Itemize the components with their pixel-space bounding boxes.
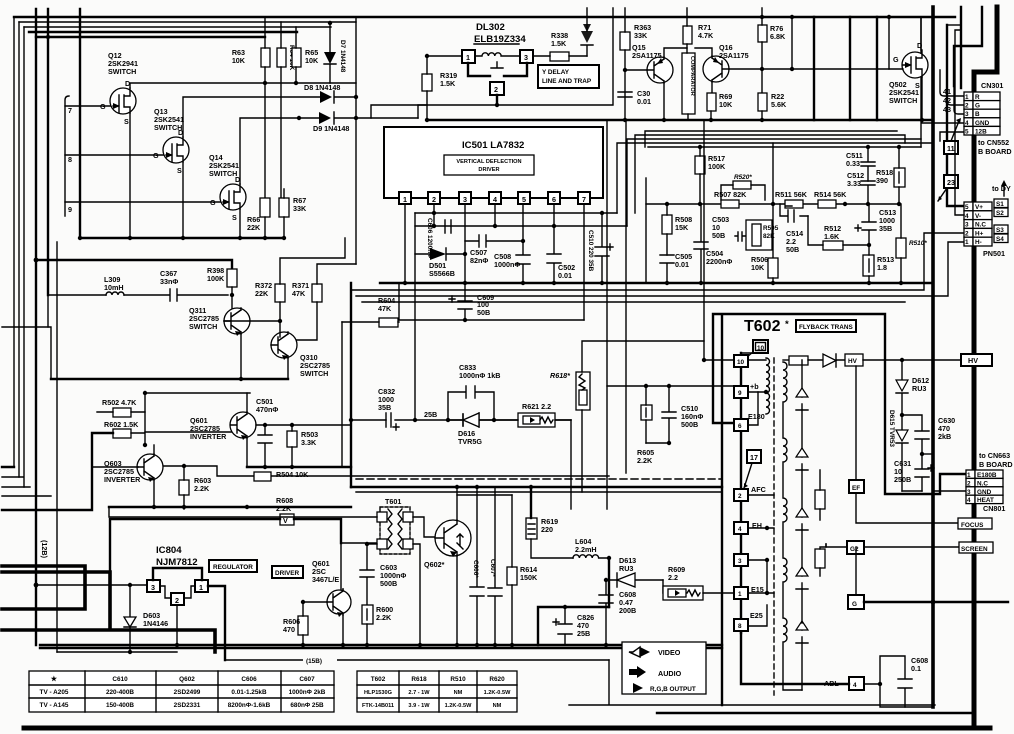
node junction 773,283: [771, 281, 775, 285]
node junction 240,238: [238, 236, 242, 240]
node junction 899,147: [897, 145, 901, 149]
wire G2 left tap: [826, 544, 847, 547]
svg-text:1N4146: 1N4146: [143, 619, 168, 628]
node junction 185,507: [182, 505, 186, 509]
wire bottom right y705: [569, 660, 935, 705]
svg-text:R514 56K: R514 56K: [814, 190, 847, 199]
svg-text:E180: E180: [748, 412, 765, 421]
svg-text:22K: 22K: [247, 223, 261, 232]
capacitor C608 0.1: [880, 656, 912, 707]
wire top border line 2: [19, 21, 356, 23]
svg-text:RU3: RU3: [912, 384, 926, 393]
wire pin9 +b junction: [748, 391, 766, 393]
wire thick vertical x351: [350, 283, 352, 487]
winding flyback primary: [766, 358, 770, 414]
wire R22 bottom: [761, 111, 763, 120]
svg-text:2SD2499: 2SD2499: [174, 689, 201, 696]
wire left border vertical 1: [13, 17, 15, 467]
svg-text:3.33: 3.33: [847, 179, 861, 188]
wire pin2 down: [433, 204, 435, 226]
node junction 183,238: [181, 236, 185, 240]
svg-text:H-: H-: [975, 239, 982, 246]
svg-text:22K: 22K: [255, 289, 269, 298]
wire G up loop: [855, 547, 857, 595]
wire nested wrap line 2: [627, 139, 921, 226]
wire Q502 source: [921, 77, 923, 120]
wire Q603 emitter: [153, 480, 155, 507]
wire thin line y474: [271, 476, 722, 492]
node junction 669,443: [667, 441, 671, 445]
wire top border line 1: [14, 16, 955, 18]
svg-text:VERTICAL DEFLECTION: VERTICAL DEFLECTION: [456, 159, 521, 165]
node HV big box: [961, 354, 992, 366]
wire Q15 collector top: [664, 48, 687, 57]
svg-text:50B: 50B: [712, 231, 725, 240]
svg-text:2kB: 2kB: [938, 432, 951, 441]
resistor R71 4.7K: [683, 26, 692, 44]
node junction 869,283: [867, 281, 871, 285]
diode D9 1N4148: [240, 112, 418, 184]
wire pin3 down to bus: [464, 204, 466, 283]
wire Q311 emitter down: [240, 334, 242, 379]
pin 2 IC804: [171, 593, 184, 605]
wire Q601 base left: [303, 601, 327, 603]
node junction 185,470: [182, 464, 186, 468]
node junction 247,507?: [245, 505, 249, 509]
wire mid horizontal y290 to PN501 H+: [351, 233, 964, 290]
node box 11: [944, 141, 958, 154]
svg-text:250B: 250B: [894, 475, 911, 484]
svg-text:V+: V+: [975, 204, 983, 211]
diode flyback rect 5: [796, 623, 808, 643]
wire Q15 base: [625, 69, 647, 71]
svg-text:220: 220: [541, 525, 553, 534]
svg-text:CN801: CN801: [983, 504, 1005, 513]
wire R513 leads: [868, 245, 870, 283]
svg-text:3.3K: 3.3K: [301, 438, 317, 447]
svg-text:R510*: R510*: [909, 240, 927, 247]
wire base line y432 to Q601 inverter: [145, 431, 231, 433]
wire Q310 emitter down: [287, 358, 289, 379]
svg-text:to CN663: to CN663: [979, 451, 1010, 460]
svg-text:FTK-14B011: FTK-14B011: [362, 703, 394, 709]
svg-text:D9 1N4148: D9 1N4148: [313, 124, 349, 133]
svg-text:B: B: [975, 111, 980, 118]
wire Q603 base: [92, 466, 138, 468]
svg-text:500B: 500B: [681, 420, 698, 429]
svg-text:220-400B: 220-400B: [106, 689, 134, 696]
wire C832 row y420: [351, 419, 571, 421]
svg-text:★: ★: [50, 674, 58, 683]
node junction 664,120: [662, 118, 666, 122]
svg-text:8: 8: [738, 623, 742, 630]
svg-text:5: 5: [965, 128, 969, 135]
wire R619 leads: [530, 487, 532, 518]
wire Q603 collector up: [153, 445, 155, 454]
node junction 465,254: [463, 252, 467, 256]
node junction 497,105: [495, 103, 499, 107]
pin 6 flyback: [734, 419, 748, 431]
node junction 606,645: [604, 643, 608, 647]
svg-text:T601: T601: [385, 497, 401, 506]
svg-text:1: 1: [403, 195, 407, 204]
node junction 367,544: [365, 542, 369, 546]
node junction 427,120: [425, 118, 429, 122]
wire box 23 pointer: [938, 188, 947, 201]
node junction 889,17: [887, 15, 891, 19]
svg-text:3467L/E: 3467L/E: [312, 575, 339, 584]
svg-text:+b: +b: [750, 382, 759, 391]
svg-text:2.2mH: 2.2mH: [575, 545, 597, 554]
svg-text:1.8: 1.8: [877, 263, 887, 272]
wire pin10 feed: [704, 359, 734, 361]
transistor Q14 2SK2541 SWITCH: [209, 153, 246, 222]
svg-text:9: 9: [68, 205, 72, 214]
svg-text:10K: 10K: [232, 56, 246, 65]
pin 10 flyback: [734, 355, 748, 367]
svg-text:3: 3: [967, 489, 971, 496]
svg-text:1000nΦ 2kB: 1000nΦ 2kB: [289, 689, 326, 696]
svg-text:2SA1175: 2SA1175: [632, 51, 662, 60]
comparator box: [682, 53, 695, 114]
svg-text:41: 41: [943, 87, 951, 96]
svg-text:SWITCH: SWITCH: [300, 369, 328, 378]
wire 15B line y660: [225, 659, 609, 661]
label box FLYBACK TRANS: [796, 320, 856, 332]
wire collector right y425: [256, 424, 351, 426]
svg-text:C610: C610: [112, 676, 128, 683]
svg-text:SWITCH: SWITCH: [154, 123, 182, 132]
wire left border vertical 2: [18, 22, 20, 477]
wire R502 leads: [97, 393, 145, 412]
pin 1 IC804: [195, 580, 208, 592]
node box 10 pointer: [753, 340, 768, 353]
node junction 762,69: [760, 67, 764, 71]
svg-text:2: 2: [738, 493, 742, 500]
svg-text:1000nΦ: 1000nΦ: [494, 260, 520, 269]
capacitor C367 33n: [124, 289, 228, 301]
resistor R520*: [733, 181, 751, 189]
svg-text:3: 3: [965, 222, 969, 229]
wire CN301 G feed: [849, 17, 851, 120]
svg-text:10K: 10K: [719, 100, 733, 109]
wire x399 link: [398, 283, 400, 320]
wire R510 leads: [900, 204, 902, 283]
wire y83 Q12 drain line: [130, 83, 356, 88]
svg-text:EF: EF: [852, 485, 860, 492]
wire y213 line: [415, 212, 617, 214]
capacitor C511 0.33: [861, 147, 875, 181]
transistor Q16 2SA1175: [703, 43, 749, 82]
node junction 554,226: [552, 224, 556, 228]
wire G to right thick: [864, 601, 1008, 603]
svg-text:10K: 10K: [305, 56, 319, 65]
node junction 523,241: [521, 239, 525, 243]
svg-text:2SD2331: 2SD2331: [174, 702, 201, 709]
wire comparator bottom: [687, 114, 689, 120]
resistor R67 33K: [279, 198, 289, 217]
resistor R505 82K in box: [746, 220, 772, 250]
pin 6 IC501: [548, 192, 560, 204]
wire y652: [57, 651, 177, 653]
fusible resistor R621 2.2: [518, 413, 555, 427]
wire source bus y238: [80, 237, 284, 239]
transistor Q310 2SC2785 SWITCH: [271, 332, 330, 378]
node junction 512,645: [510, 643, 514, 647]
diode D7 1N4148: [324, 23, 336, 83]
node junction 899,204: [897, 202, 901, 206]
node junction 405,283: [403, 281, 407, 285]
resistor R606 470: [298, 616, 308, 635]
node 15B label: [303, 654, 337, 665]
resistor R504 10K: [254, 472, 271, 481]
node junction 303,645: [301, 643, 305, 647]
wire pin1 E15 stub: [748, 592, 774, 594]
capacitor C609 100 50B: [449, 283, 472, 320]
wire CN301 G feed jog: [947, 78, 964, 105]
wire right thick bus x933: [931, 7, 935, 707]
node S3 box: [994, 225, 1008, 234]
capacitor C505 0.01: [660, 255, 674, 283]
node junction 145,445: [143, 443, 147, 447]
svg-text:Y DELAY: Y DELAY: [542, 69, 570, 76]
legend box: [622, 642, 706, 694]
node junction 265,425: [263, 423, 267, 427]
wire regulator input y585: [36, 584, 147, 586]
wire left bottom thick stub y572: [2, 572, 215, 652]
svg-text:0.01: 0.01: [675, 260, 689, 269]
wire R65 leads: [295, 27, 297, 83]
svg-text:200B: 200B: [619, 606, 636, 615]
pin 4 flyback EH: [734, 522, 748, 534]
svg-text:R510: R510: [450, 676, 466, 683]
svg-text:G: G: [975, 103, 980, 110]
node junction 701,283: [699, 281, 703, 285]
svg-text:1.2K-0.5W: 1.2K-0.5W: [445, 703, 472, 709]
svg-text:VIDEO: VIDEO: [658, 648, 681, 657]
svg-text:2: 2: [175, 596, 179, 605]
node junction 448,420: [446, 418, 450, 422]
svg-text:TV - A145: TV - A145: [40, 702, 69, 709]
wire bottom right y714: [657, 712, 974, 714]
svg-text:50B: 50B: [477, 308, 490, 317]
capacitor C503 10 50B: [735, 232, 746, 241]
svg-text:B BOARD: B BOARD: [978, 147, 1012, 156]
svg-text:3: 3: [463, 195, 467, 204]
svg-text:FOCUS: FOCUS: [961, 522, 984, 529]
wire EF down to FOCUS: [856, 493, 958, 523]
pin 3 IC501: [459, 192, 471, 204]
node junction 700,147: [698, 145, 702, 149]
wire D613 to R609 jog: [662, 580, 664, 593]
transistor Q601 2SC3467L/E driver: [312, 559, 351, 617]
node HV small box: [845, 354, 863, 366]
wire right thick bus x974: [974, 7, 997, 725]
node junction 922,120: [920, 118, 924, 122]
node junction 625,120: [623, 118, 627, 122]
diode D613 RU3: [609, 573, 663, 587]
capacitor C512 3.33: [861, 181, 875, 204]
svg-text:DRIVER: DRIVER: [478, 167, 499, 173]
transformer T602 flyback enclosure: [713, 314, 966, 705]
wire nested wrap line 1: [617, 143, 933, 213]
svg-text:150-400B: 150-400B: [106, 702, 134, 709]
svg-text:R: R: [975, 94, 980, 101]
wire flyback diode chain vertical: [801, 360, 803, 690]
svg-text:DL302: DL302: [476, 22, 505, 33]
wire y470 line R504: [162, 466, 254, 476]
svg-text:8200nΦ-1.6kB: 8200nΦ-1.6kB: [228, 702, 271, 709]
svg-text:G: G: [100, 102, 106, 111]
svg-text:1.5K: 1.5K: [551, 39, 567, 48]
node junction 901,283: [899, 281, 903, 285]
wire R600 bottom: [366, 624, 368, 645]
wire left border vertical 5: [56, 242, 58, 652]
connector PN501: [964, 202, 1005, 258]
node junction 299,118: [297, 116, 301, 120]
svg-text:SWITCH: SWITCH: [889, 96, 917, 105]
svg-text:2.2K: 2.2K: [276, 504, 292, 513]
wire R363 leads: [624, 8, 626, 120]
transistor Q601 2SC2785 INVERTER: [190, 412, 256, 441]
transistor Q502 2SK2541 SWITCH: [889, 41, 928, 105]
svg-text:SWITCH: SWITCH: [189, 322, 217, 331]
wire Q16 bus y56 vertical x947 top bend: [947, 24, 961, 26]
wire x792 link to top: [791, 17, 793, 69]
svg-text:G2: G2: [850, 546, 859, 553]
capacitor C606 1200n: [445, 220, 451, 233]
svg-text:500B: 500B: [380, 579, 397, 588]
svg-text:11: 11: [947, 144, 955, 153]
svg-text:R621 2.2: R621 2.2: [522, 402, 551, 411]
capacitor C606*: [470, 487, 484, 645]
wire y118 step to R319: [418, 105, 427, 118]
node junction 130,652: [128, 650, 132, 654]
wire CN301 R feed jog: [940, 70, 964, 96]
transistor Q12 2SK2941 SWITCH: [100, 51, 138, 126]
wire V box leads: [110, 519, 341, 572]
delay line DL302 pin 1: [462, 50, 475, 63]
node junction 292,470: [290, 465, 294, 469]
wire R604 leads: [342, 321, 399, 323]
svg-text:5: 5: [965, 204, 969, 211]
diode D616 TVR5G: [448, 413, 494, 427]
svg-text:3.9 - 1W: 3.9 - 1W: [408, 703, 430, 709]
resistor R602 1.5K: [113, 429, 131, 438]
svg-text:82nΦ: 82nΦ: [470, 256, 488, 265]
capacitor C510 160n 500B: [662, 386, 676, 443]
wire EF drop: [855, 366, 857, 480]
svg-text:10: 10: [757, 345, 765, 352]
node junction 292,425: [290, 423, 294, 427]
node junction 367,645: [365, 643, 369, 647]
capacitor C607: [488, 487, 502, 645]
svg-text:R602 1.5K: R602 1.5K: [104, 420, 139, 429]
wire pin3 stub: [748, 560, 767, 593]
svg-text:9: 9: [738, 390, 742, 397]
node junction 145,393: [143, 391, 147, 395]
node junction 465,283: [463, 281, 467, 285]
svg-text:2.2K: 2.2K: [376, 613, 392, 622]
svg-text:to CN552: to CN552: [978, 138, 1009, 147]
wire left exit stub y327: [2, 327, 51, 379]
node junction 494,420: [492, 418, 496, 422]
svg-text:AUDIO: AUDIO: [658, 669, 682, 678]
svg-text:D8 1N4148: D8 1N4148: [304, 83, 340, 92]
delay line DL302 pin 2: [490, 82, 504, 95]
transistor Q13 2SK2541 SWITCH: [153, 107, 189, 175]
resistor R69 10K: [707, 93, 716, 111]
svg-text:50B: 50B: [786, 245, 799, 254]
svg-text:N.C: N.C: [977, 480, 988, 487]
svg-text:0.01: 0.01: [558, 271, 572, 280]
svg-text:23: 23: [947, 178, 955, 187]
svg-text:C607: C607: [299, 676, 315, 683]
resistor R513 1.8: [863, 255, 874, 276]
wire R603 leads: [183, 466, 185, 509]
resistor flyback inner 1: [815, 490, 825, 509]
wire y495 stub: [457, 494, 512, 496]
svg-text:10mH: 10mH: [104, 283, 124, 292]
svg-text:N.C: N.C: [975, 222, 986, 229]
wire Q602 emitter down: [456, 556, 458, 645]
svg-text:390: 390: [876, 176, 888, 185]
node junction 868,204: [866, 202, 870, 206]
wire T601 left bottom pad: [367, 543, 377, 545]
svg-text:5.6K: 5.6K: [771, 100, 787, 109]
svg-text:47K: 47K: [378, 304, 392, 313]
resistor R508 15K: [662, 215, 672, 234]
wire R614 leads: [511, 495, 513, 645]
connector CN801: [966, 470, 1005, 513]
wire left bottom horizontal y477: [2, 476, 23, 478]
wire Q16 collector bus right: [729, 68, 889, 70]
svg-text:G: G: [210, 198, 216, 207]
svg-text:NM: NM: [454, 690, 463, 696]
svg-text:Q602: Q602: [179, 676, 195, 683]
node junction x48 y37: [46, 35, 50, 39]
winding flyback secondary: [783, 362, 802, 690]
capacitor C513 1000 35B: [855, 204, 876, 245]
svg-text:TVR5G: TVR5G: [458, 437, 482, 446]
capacitor C630 470 2kB: [902, 415, 929, 454]
wire emitter bus y507: [109, 506, 351, 508]
resistor R363 33K: [620, 32, 630, 50]
pin 3 IC804: [147, 580, 160, 592]
node junction 356,97: [354, 95, 358, 99]
resistor R506 10K: [768, 258, 778, 278]
svg-text:(15B): (15B): [306, 658, 322, 665]
wire bottom bus y645: [40, 644, 722, 646]
node pin bracket 7 8 9: [65, 96, 69, 216]
svg-text:3: 3: [524, 53, 528, 62]
svg-text:4: 4: [967, 497, 971, 504]
svg-text:25B: 25B: [577, 629, 590, 638]
wire Q14 source down: [239, 209, 241, 238]
resistor R600 2.2K: [362, 605, 373, 624]
wire pin8 E25 stub: [748, 605, 767, 626]
node junction 247,470: [263, 465, 267, 469]
svg-text:HV: HV: [848, 358, 858, 365]
svg-text:R507 82K: R507 82K: [714, 190, 747, 199]
svg-text:S: S: [232, 213, 237, 222]
wire feedback section top y147: [648, 146, 921, 148]
svg-text:SCREEN: SCREEN: [961, 546, 988, 553]
table 2: [357, 671, 517, 712]
resistor R604 47K: [379, 318, 398, 327]
capacitor C514 2.2 50B: [780, 204, 808, 222]
svg-text:E180B: E180B: [977, 472, 997, 479]
